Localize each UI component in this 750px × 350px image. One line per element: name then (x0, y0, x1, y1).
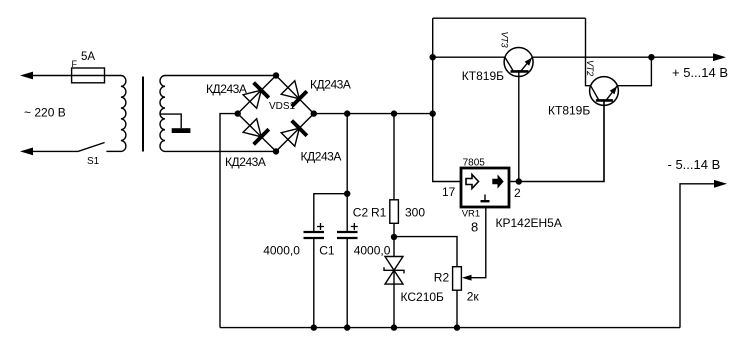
svg-text:VDS1: VDS1 (269, 101, 296, 112)
capacitor C2 (337, 231, 358, 233)
svg-text:4000,0: 4000,0 (354, 243, 391, 257)
bridge VDS1 side top-right (276, 76, 314, 114)
node bridge left (235, 110, 241, 116)
svg-text:2: 2 (514, 186, 521, 200)
plus sign C1 (317, 223, 324, 230)
fuse F 5A (72, 68, 105, 83)
svg-text:КД243А: КД243А (310, 78, 351, 92)
svg-text:- 5...14 В: - 5...14 В (668, 157, 721, 172)
svg-text:C1: C1 (319, 243, 335, 257)
arrow AC bottom terminal (20, 148, 33, 156)
node plus output junction (648, 54, 654, 60)
arrow plus output (713, 53, 726, 61)
node plus rail to input (430, 110, 436, 116)
wire regulator output (509, 100, 604, 181)
svg-text:R1: R1 (371, 206, 387, 220)
wire R2 branch (394, 237, 457, 267)
wire capacitors top branch (314, 114, 347, 231)
plus sign C2 (351, 223, 358, 230)
regulator output arrow solid (492, 174, 503, 188)
svg-text:F: F (72, 59, 78, 69)
svg-text:VT2: VT2 (585, 60, 595, 76)
node C branch (344, 110, 350, 116)
wire minus output (680, 184, 714, 328)
wire AC line bottom (31, 150, 78, 152)
wire switch to transformer (106, 150, 121, 152)
wire minus from bridge left node (220, 114, 238, 328)
diode VD3 bottom-left (242, 118, 268, 144)
wire VT2 emitter up to plus rail (617, 57, 651, 85)
wire C2 bottom (346, 239, 348, 328)
zener VD5 KS210B (384, 257, 404, 285)
svg-text:КД243А: КД243А (225, 155, 266, 169)
transformer T1 primary winding (121, 76, 126, 152)
node C1 C2 tie (344, 191, 350, 197)
svg-text:17: 17 (442, 185, 456, 199)
svg-text:КД243А: КД243А (206, 82, 247, 96)
node regulator output VT3 base (516, 178, 522, 184)
svg-text:КТ819Б: КТ819Б (548, 103, 590, 117)
bridge VDS1 side bottom-right (276, 114, 314, 152)
node C2 bottom (344, 324, 350, 330)
wire plus rail (314, 113, 433, 115)
wire top rail (433, 17, 586, 19)
node R1 top (391, 110, 397, 116)
svg-text:C2: C2 (353, 206, 369, 220)
transformer T1 secondary winding (160, 76, 165, 152)
wire R2 wiper from pin 8 (470, 207, 486, 278)
svg-text:~ 220 В: ~ 220 В (24, 106, 66, 120)
wire VT2 collector drop (586, 18, 591, 86)
node zener bottom (391, 324, 397, 330)
wire center tap (160, 114, 181, 128)
switch S1 (78, 143, 105, 152)
diode VD2 top-right (280, 80, 306, 106)
resistor R2 potentiometer (453, 267, 462, 291)
svg-text:4000,0: 4000,0 (263, 243, 300, 257)
svg-text:2к: 2к (467, 290, 480, 304)
svg-text:7805: 7805 (463, 157, 486, 168)
node bridge top (273, 72, 279, 78)
svg-text:300: 300 (405, 206, 425, 220)
svg-text:VT3: VT3 (500, 32, 510, 48)
svg-text:+ 5...14 В: + 5...14 В (672, 65, 728, 80)
svg-text:КС210Б: КС210Б (401, 290, 445, 304)
wire R1 top (393, 114, 395, 200)
wire AC line top (31, 75, 121, 77)
wire VT3 collector (433, 56, 505, 58)
wire bottom rail (220, 327, 680, 329)
arrow AC top terminal (20, 72, 33, 80)
svg-text:S1: S1 (87, 156, 100, 167)
wire C2 top (346, 194, 348, 231)
transistor VT3 (504, 48, 533, 182)
svg-text:8: 8 (471, 220, 478, 235)
node C1 bottom (311, 324, 317, 330)
capacitor C1 (304, 231, 325, 233)
wire secondary top to bridge (165, 75, 276, 77)
svg-text:КТ819Б: КТ819Б (462, 69, 504, 83)
bridge VDS1 side top-left (238, 76, 276, 114)
svg-text:КД243А: КД243А (301, 149, 342, 163)
wire R2 bottom (456, 290, 458, 327)
resistor R1 (390, 200, 399, 224)
wire VT3 emitter to plus output (532, 56, 714, 58)
regulator U1 7805 box (461, 168, 509, 207)
transformer core (142, 77, 144, 152)
diode VD4 bottom-right (280, 121, 306, 147)
node R1 zener junction (391, 234, 397, 240)
bridge VDS1 side bottom-left (238, 114, 276, 152)
wire zener bottom (393, 270, 395, 327)
wire C1 bottom (313, 239, 315, 328)
regulator input arrow hollow (466, 175, 479, 189)
svg-text:5A: 5A (81, 51, 95, 63)
ground (172, 128, 191, 133)
node bridge right (311, 110, 317, 116)
node bridge bottom (273, 148, 279, 154)
node collector rail (430, 54, 436, 60)
arrow minus output (714, 180, 727, 188)
wire R1 bottom (393, 223, 395, 256)
svg-text:VR1: VR1 (462, 209, 480, 220)
node R2 bottom (454, 324, 460, 330)
regulator ground symbol (484, 195, 486, 201)
wire regulator input (433, 18, 461, 181)
svg-text:КР142ЕН5А: КР142ЕН5А (496, 216, 562, 230)
wire secondary bottom to bridge (165, 150, 276, 152)
diode VD1 top-left (242, 83, 268, 109)
arrow R2 wiper (462, 275, 472, 281)
transistor VT2 (590, 77, 619, 182)
svg-text:R2: R2 (434, 271, 450, 285)
